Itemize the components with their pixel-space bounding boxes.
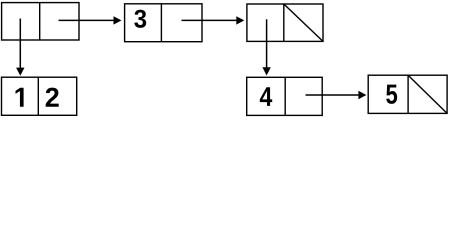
value label 3 [134,10,146,28]
wire A.cdr right to node B [59,19,115,21]
node D (cell 1 | 2, bottom-left) [2,77,77,115]
value label 5 [386,85,397,104]
arrowhead into node E [262,67,270,75]
node E (cons cell with value 4) [247,77,323,115]
value label 1 [16,88,24,107]
arrowhead into node B [114,16,122,24]
node F (cell 5 with nil cdr) [368,75,447,113]
node A (head cons cell, top-left) [2,3,79,40]
value label 2 [46,88,59,107]
wire A.car down to node D [19,19,21,69]
wire E.cdr right to node F [306,94,360,96]
node B (cons cell with value 3) [125,4,202,42]
wire B.cdr right to node C [182,19,238,21]
arrowhead into node F [358,91,366,99]
wire C.car down to node E [266,19,268,68]
arrowhead into node C [236,16,244,24]
value label 4 [260,87,272,106]
arrowhead into node D [16,68,24,76]
node C (cons cell, nil cdr) [247,4,323,41]
